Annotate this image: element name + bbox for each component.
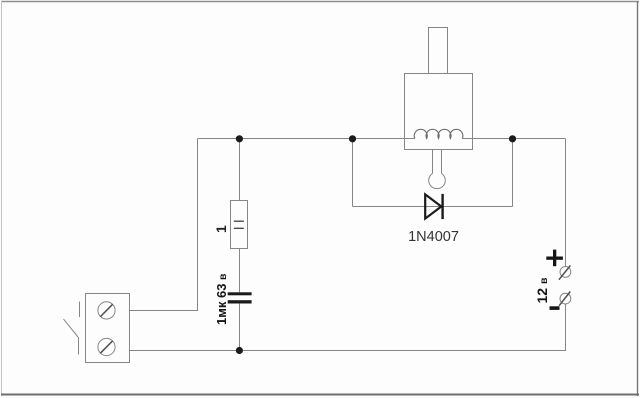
svg-text:1мк 63 в: 1мк 63 в	[214, 273, 229, 325]
svg-text:1N4007: 1N4007	[408, 229, 459, 245]
svg-text:12 в: 12 в	[534, 277, 550, 303]
svg-text:1: 1	[213, 225, 229, 233]
